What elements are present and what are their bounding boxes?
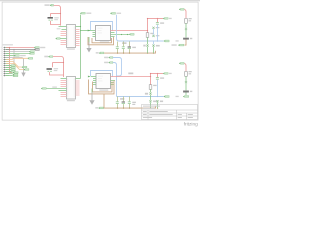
wire blue rail bottom [117,96,164,98]
capacitor C5 [116,97,124,109]
ground arrow connector [21,73,25,77]
capacitor C1 [116,42,127,54]
wire brown to label [185,40,187,46]
transistor Q3 [149,100,156,108]
junction [150,73,158,77]
crystal X2 [47,68,59,72]
wire green pin4 [6,53,29,55]
diode D1 [185,28,187,30]
node +5V label [80,12,91,14]
junction [127,34,128,35]
wire dark pin2 [6,49,34,51]
wire red below crystal [51,21,61,25]
wire green pin12 [6,69,10,71]
U1 right pins red [76,30,80,46]
junction [150,96,158,97]
crystal X1 [48,17,59,21]
wire gray pin6 to gnd [6,58,24,73]
capacitor C8 [156,74,164,97]
capacitor C7 [128,97,136,109]
node label U2 pin [41,87,57,90]
U2 left pin green short [59,90,67,92]
wire red column Q3 [150,74,152,85]
wire green U1 label pin [60,38,66,40]
U2 right pins red [76,81,80,95]
junction [13,49,14,70]
U2 pin1 green [61,78,67,80]
diode D3 [185,81,187,83]
fritzing logo [184,122,198,128]
wire red bus vertical [10,48,13,73]
M1 left pins green [93,33,96,37]
M2 value text [99,90,108,91]
wire green +5V vertical [80,15,82,79]
wire brown M2 loop outer [89,80,115,94]
junction [117,108,158,109]
resistor R2 [149,85,157,90]
node label pin15 [13,74,18,76]
node label M2 blue A [104,57,113,59]
U2 right pin green to +5V [76,78,81,80]
capacitor C2 [122,42,125,54]
transistor Q2 [152,41,159,53]
module M2 blue wire loop [91,71,113,77]
junction [157,40,158,41]
node label red rail [163,18,172,20]
page frame [2,2,198,120]
wire green right column bottom [185,76,187,81]
title block [142,105,198,120]
wire green to module M1 [81,30,96,32]
node label right column bottom top [179,62,184,64]
capacitor C3 electrolytic [128,42,136,54]
module M1 body [96,26,111,41]
wire orange pin8 diagonal [6,62,22,68]
diode D2 [145,89,152,100]
node label red rail bottom [163,73,172,75]
wire green U2 label pin [47,88,67,90]
wire orange pin9 diagonal [6,64,24,70]
node label pin5 [14,55,26,57]
capacitor C4 [156,19,164,42]
connector JP1 pins [1,47,7,77]
wire red right column bottom [184,64,186,72]
U1 left pins red [61,32,67,45]
resistor R4 [185,71,192,76]
wire red pin1 [6,47,34,49]
transistor Q1 [143,45,148,54]
wire green pin11 [6,67,10,69]
node label pin3 [29,51,34,53]
wire red top crystal net [51,6,61,26]
wire brown rail top [104,51,155,53]
M2 right pins green [111,81,116,85]
junction [121,34,122,35]
node label green right [129,33,134,35]
wire brown M1 loop outer [88,37,114,45]
junction [80,30,81,31]
junction [63,62,64,63]
IC U2 [67,77,76,102]
junction [9,47,10,48]
wire green M1 to label [111,34,130,36]
node XTALNET2 label [44,56,52,58]
wire red M1 output [111,30,148,32]
node label blue rail bottom [164,96,179,98]
wire gray pin3 [6,51,29,53]
ground below M1 [86,37,91,53]
module M1 blue wire loop [91,22,113,31]
U1 pin 1 wire green [59,26,67,28]
M1 value text [100,42,109,43]
node label pin2 dark [34,49,39,51]
M2 left pins green [93,79,96,85]
node GND rail label bottom [95,107,103,109]
node label right col A [172,44,184,46]
node label pin9 [24,69,29,71]
node label U1 pin [56,38,60,40]
resistor R3 [185,18,192,23]
node label right col bottom end [183,93,189,98]
node +5V label right column [179,8,184,10]
wire brown M1 loop inner [92,38,112,43]
diode pair column mid top [152,27,159,37]
wire blue A [113,58,122,77]
wire red M2 output [111,76,151,78]
node label pin4 [29,53,34,55]
M1 right pins green [111,33,115,37]
module M2 body [96,74,111,89]
U2 left pins red [61,81,67,97]
node label blue rail end [164,40,179,42]
wire brown rail bottom [104,106,156,108]
U1 left pin green [62,29,67,31]
node label pin12 [10,69,15,71]
ground below M2 [89,89,94,105]
wire red column Q1 [147,19,149,33]
connector pin stubs green [6,48,9,76]
node label pin11 [10,67,15,69]
connector JP1 name [3,44,13,45]
wire green below R1 [147,37,149,44]
svg-text:fritzing: fritzing [184,122,198,128]
wire green pin10 [6,65,10,67]
node label pin1 [34,47,45,49]
wire red rail V+ bottom [151,73,164,75]
wire red right column [184,10,186,19]
node label pin14 red end [13,72,18,74]
wire red crystal net 2 [53,57,64,78]
transistor Q4 [156,100,163,108]
node GND rail label top [96,52,104,54]
wire blue vertical [117,15,164,41]
node label pin10 [10,65,15,67]
buzzer LS2 [183,91,192,93]
U1 right pin green to +5V [76,26,81,28]
capacitor C6 electrolytic [122,97,125,109]
node label pin16 [13,75,18,77]
node label M2 blue B [104,62,113,64]
title block text [143,106,193,118]
node label pin13 [10,71,15,73]
junction [80,26,81,27]
wire green [185,30,187,38]
node label pin8 [22,66,27,68]
buzzer LS1 [183,38,192,40]
wire brown M2 to rail [103,94,105,108]
wire green pin5 [6,55,14,57]
junction [60,13,61,14]
resistor R1 [146,33,154,38]
wire blue B [113,63,117,97]
junction [147,18,158,31]
node label blue net top [110,12,121,14]
wire red below crystal X2 [50,72,64,75]
wire green pin14 [6,73,13,75]
node XTALNET1 label [45,4,54,6]
pin arrow M2 input [88,76,96,78]
wire brown M2 loop inner [93,82,113,92]
wire gray bus vertical 1 [13,50,15,70]
wire green [185,83,187,90]
wire red rail V+ top [148,18,164,20]
IC U1 [67,25,76,50]
node label pin6 [28,57,33,59]
net text M2 red [128,73,133,75]
wire green right column [185,23,187,27]
pin arrow M1 input [88,30,91,32]
wire orange pin7 [6,58,28,59]
wire green pin16 [6,75,13,77]
wire green pin13 [6,71,10,73]
junction [117,53,154,54]
U1 left pin text [57,28,61,29]
